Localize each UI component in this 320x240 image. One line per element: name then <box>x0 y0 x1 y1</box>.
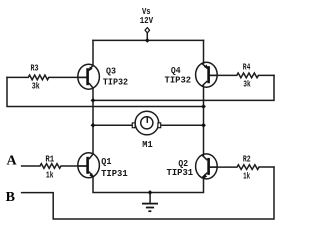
svg-text:B: B <box>6 190 15 205</box>
wire Q1 emitter to ground rail to Q2 emitter <box>93 177 204 193</box>
wire Q3 emitter vertical <box>92 40 94 65</box>
junction dot Vs to top rail <box>145 38 150 43</box>
wire Q4 emitter vertical <box>203 40 205 63</box>
svg-text:Q1: Q1 <box>101 156 112 167</box>
transistor Q4 PNP TIP32 <box>196 62 218 87</box>
resistor R4 3k <box>210 73 274 78</box>
svg-text:A: A <box>7 154 18 169</box>
junction dot ground tap <box>148 190 153 195</box>
svg-text:12V: 12V <box>140 15 154 26</box>
wire R3 loop to right node <box>7 77 204 106</box>
svg-text:3k: 3k <box>32 80 40 91</box>
svg-text:R4: R4 <box>243 61 251 72</box>
svg-text:R3: R3 <box>31 63 39 74</box>
wire motor right <box>161 124 204 126</box>
svg-text:TIP32: TIP32 <box>103 77 128 88</box>
wire left node vertical (Q3 C to Q1 C) <box>92 88 94 154</box>
resistor R1 1k <box>22 164 87 169</box>
svg-text:1k: 1k <box>243 170 250 181</box>
svg-text:TIP32: TIP32 <box>165 75 192 86</box>
motor M1 <box>132 111 160 135</box>
junction dot left node / R4 line <box>91 98 96 103</box>
svg-text:M1: M1 <box>142 139 153 150</box>
svg-text:R1: R1 <box>45 154 54 165</box>
wire right node vertical (Q4 C to Q2 C) <box>203 86 205 155</box>
terminal Vs <box>145 28 150 33</box>
junction dot right node / motor right <box>201 123 206 128</box>
wire B net: B to bottom rail up to R2 <box>22 167 274 219</box>
resistor R2 1k <box>210 165 274 170</box>
wire ground stub <box>149 193 151 204</box>
wire top rail <box>93 39 204 41</box>
transistor Q1 NPN TIP31 <box>78 153 100 178</box>
ground <box>142 204 158 212</box>
svg-text:R2: R2 <box>243 153 251 164</box>
svg-text:TIP31: TIP31 <box>101 168 128 179</box>
junction dot left node / motor left <box>91 123 96 128</box>
wire motor left <box>93 124 132 126</box>
svg-text:TIP31: TIP31 <box>167 167 194 178</box>
transistor Q3 PNP TIP32 <box>78 64 100 89</box>
wire cross line left node to R4 <box>93 75 274 100</box>
resistor R3 3k <box>7 75 86 80</box>
transistor Q2 NPN TIP31 <box>196 154 218 179</box>
svg-text:Q3: Q3 <box>106 66 116 77</box>
wire Vs stub <box>146 33 148 41</box>
svg-text:3k: 3k <box>243 78 251 89</box>
junction dot right node / R3 line <box>201 104 206 109</box>
svg-text:1k: 1k <box>46 170 54 181</box>
